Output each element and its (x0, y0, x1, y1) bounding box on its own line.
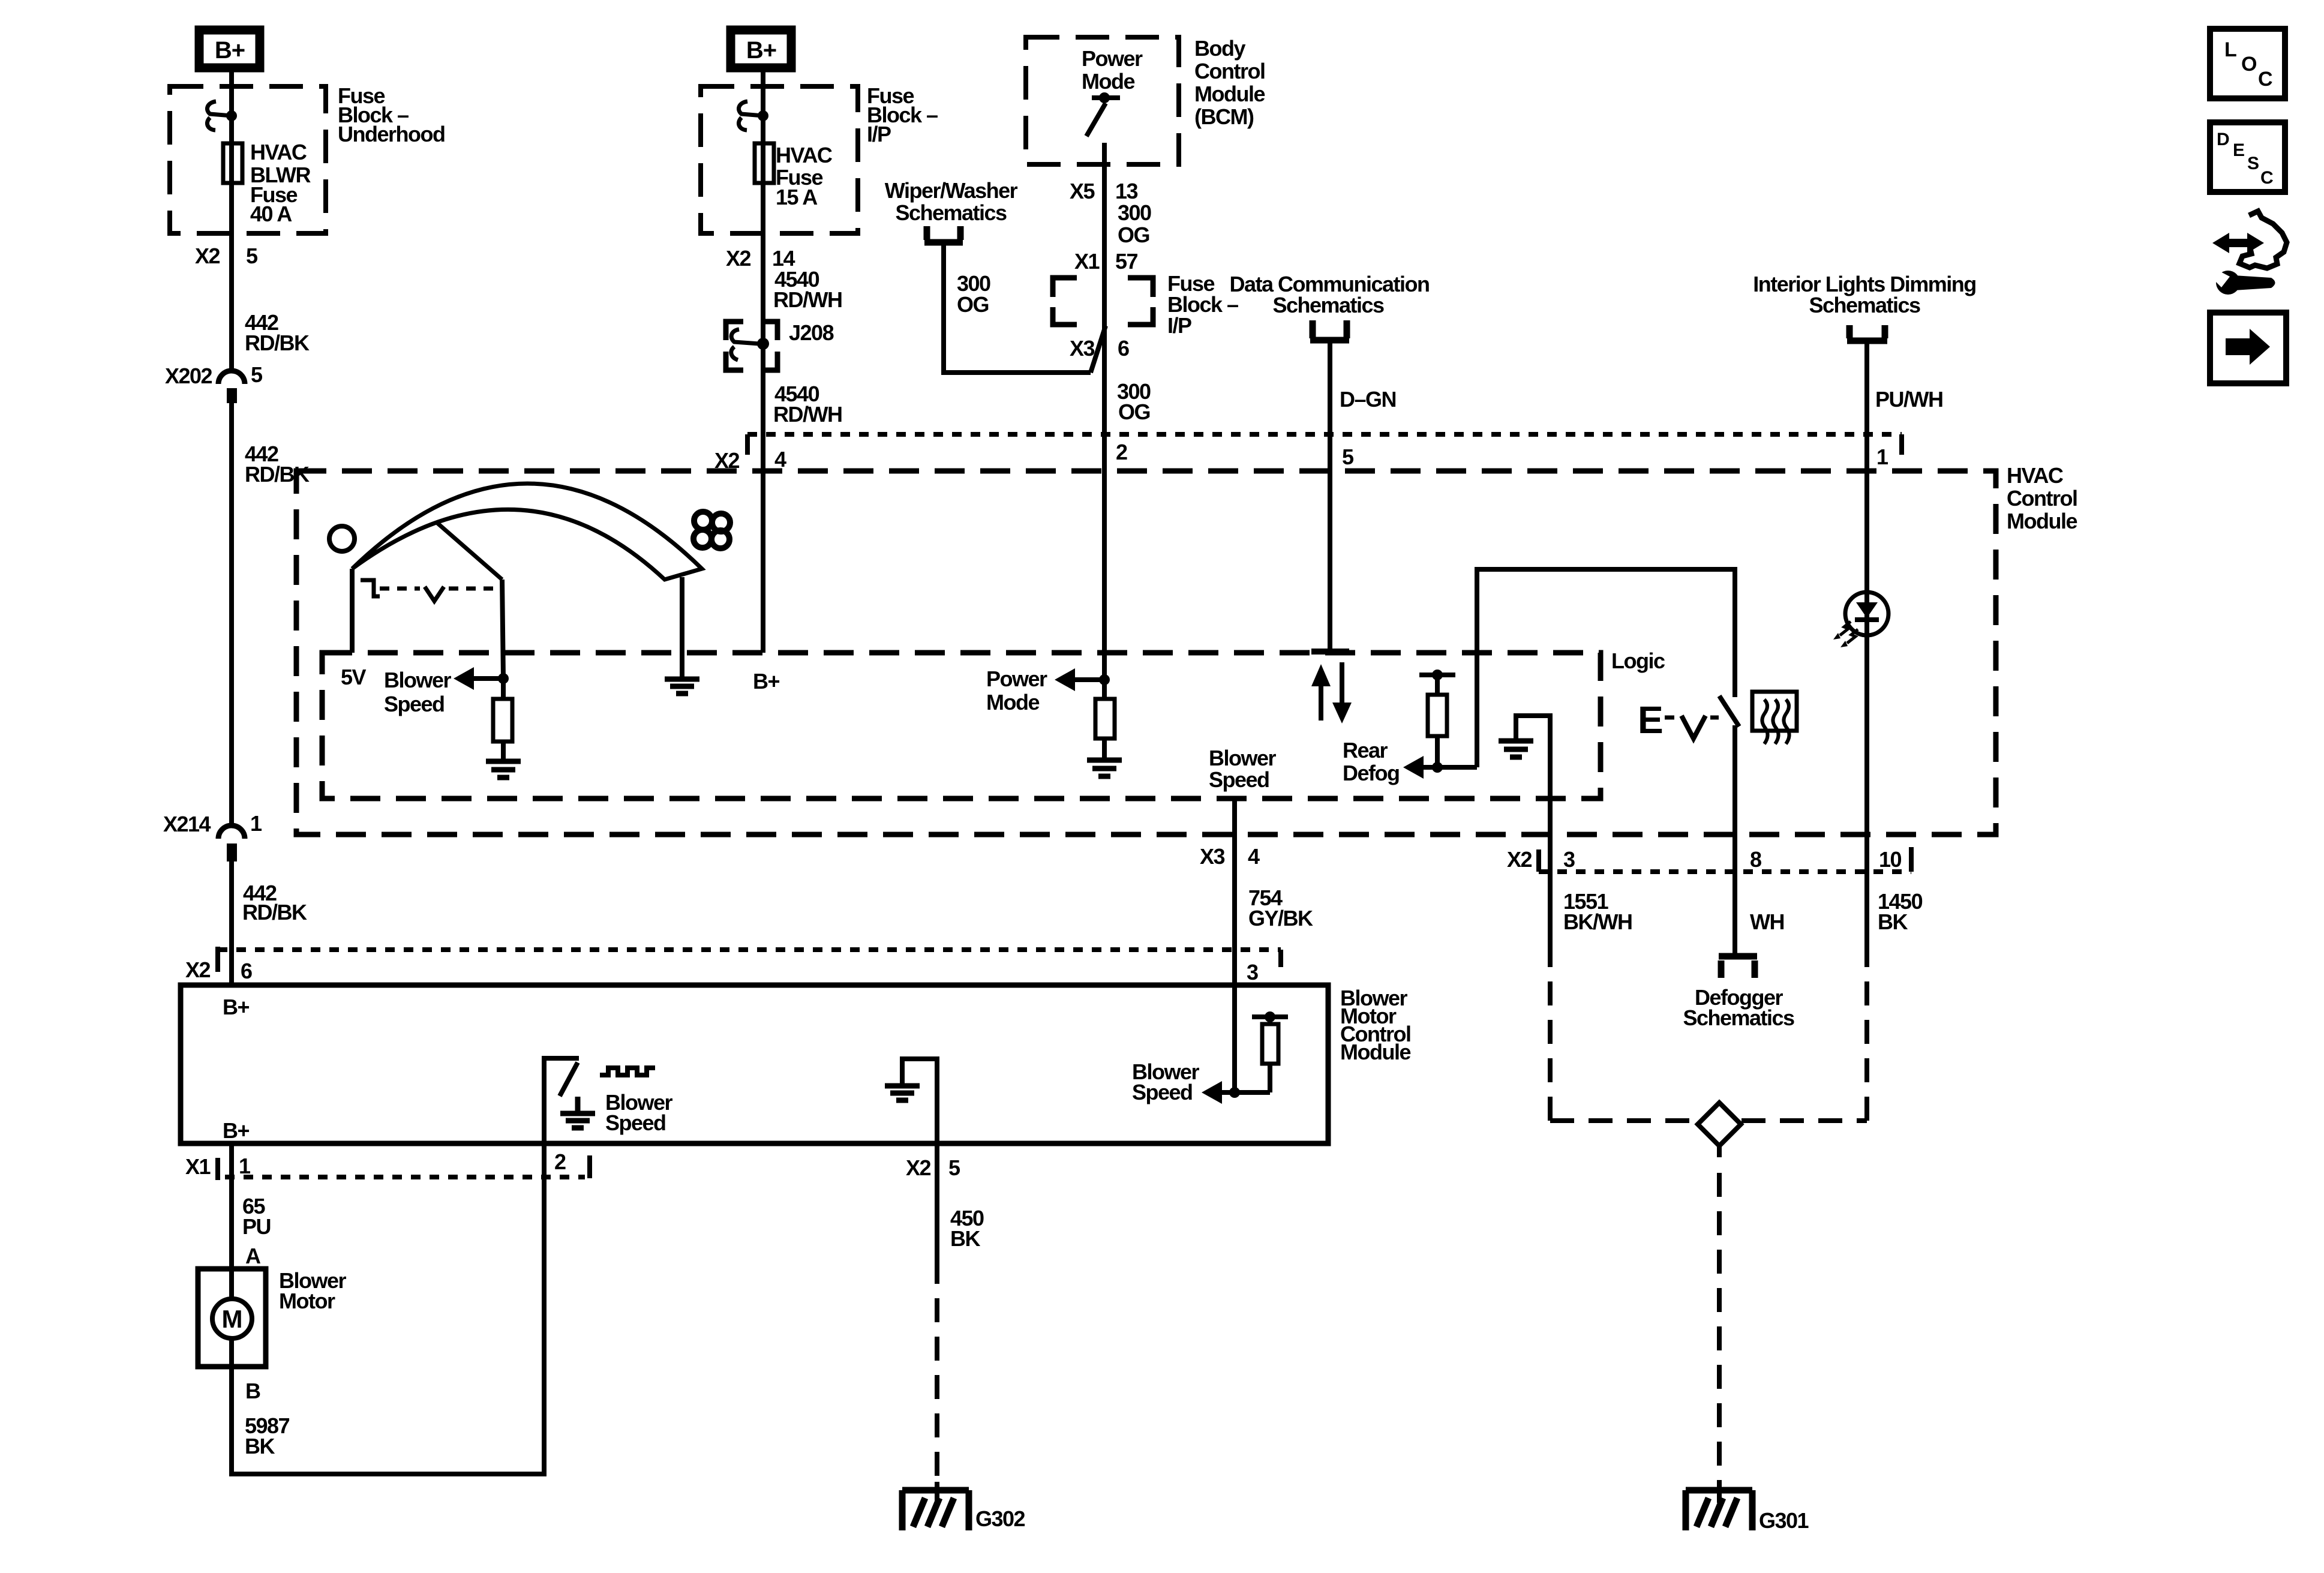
LOC reference box (2210, 29, 2285, 98)
wire 754 into module (1232, 985, 1237, 1092)
svg-text:Speed: Speed (1132, 1080, 1193, 1104)
svg-text:Control: Control (1194, 59, 1265, 83)
label HVAC BLWR Fuse 40 A (250, 140, 311, 226)
svg-text:Speed: Speed (605, 1110, 666, 1135)
fan icon (693, 512, 730, 548)
wire LED to pin 10 (1864, 634, 1869, 872)
svg-text:RD/WH: RD/WH (773, 287, 842, 312)
B+ power symbol (left) (199, 30, 260, 68)
svg-text:X2: X2 (185, 957, 211, 982)
svg-text:X1: X1 (185, 1154, 211, 1179)
svg-text:B: B (245, 1379, 260, 1403)
power mode switch pivot dot (1099, 92, 1110, 103)
svg-text:Speed: Speed (384, 692, 445, 716)
resistor (rear defog pull-up) (1435, 679, 1440, 695)
svg-text:X3: X3 (1200, 844, 1225, 869)
svg-text:Schematics: Schematics (1809, 293, 1920, 317)
svg-text:A: A (245, 1244, 261, 1268)
svg-text:G302: G302 (975, 1506, 1025, 1531)
label Fuse Block - Underhood (338, 83, 445, 146)
logic ground wire (1516, 716, 1550, 872)
label Blower Speed (HVAC input) (384, 668, 452, 716)
splice J208 fuse element (731, 329, 759, 360)
svg-text:Logic: Logic (1611, 649, 1665, 673)
splice diamond (1698, 1103, 1741, 1146)
off-page connector interior lights dimming (1847, 325, 1887, 341)
svg-text:Body: Body (1194, 36, 1245, 61)
DESC letters (2217, 130, 2274, 188)
fan motor wire to ground (680, 577, 684, 677)
adjuster mark (361, 580, 380, 596)
potentiometer needle (437, 523, 502, 580)
motor wire through box (229, 1269, 234, 1299)
diagnostic icon wrench (2211, 268, 2275, 295)
connector row dotted line X2 (HVAC module top) (747, 432, 1902, 437)
bracket right end of dotted row (1899, 434, 1904, 455)
label X214 / 1 (163, 811, 262, 836)
junction dot power mode (1099, 674, 1110, 685)
dashed harness right edge (1450) (1864, 981, 1869, 1121)
label Blower Speed (HVAC output) (1209, 746, 1277, 792)
off-page connector defogger (1719, 956, 1757, 978)
splice J208 bracket (726, 322, 777, 370)
svg-text:RD/BK: RD/BK (245, 462, 310, 487)
wire B+ to X202 (442 circuit) (229, 68, 234, 372)
data line end cap (1311, 649, 1349, 655)
connector X214 half-circle (218, 825, 245, 839)
svg-text:Underhood: Underhood (338, 122, 445, 146)
svg-text:Control: Control (2007, 486, 2077, 511)
svg-text:13: 13 (1115, 179, 1138, 203)
ground (fan motor) (665, 679, 699, 694)
dot rear defog supply (1432, 670, 1443, 680)
label Blower Speed (module input) (1132, 1059, 1200, 1104)
dashed adjust line 2 (449, 587, 502, 591)
connector X202 terminal (227, 388, 237, 403)
LED circle (1845, 592, 1888, 635)
connector X202 half-circle (218, 371, 245, 384)
svg-text:Wiper/Washer: Wiper/Washer (885, 178, 1018, 203)
svg-text:5V: 5V (341, 665, 367, 689)
svg-text:BK/WH: BK/WH (1563, 909, 1632, 934)
svg-text:HVAC: HVAC (776, 143, 833, 167)
svg-text:Rear: Rear (1343, 738, 1388, 763)
wiper signal wire (502, 580, 503, 679)
pin label X2 / 5 (module) (906, 1155, 960, 1180)
svg-text:RD/BK: RD/BK (242, 900, 307, 924)
G302 wire stub (935, 1482, 939, 1503)
svg-text:3: 3 (1563, 847, 1575, 872)
svg-text:1: 1 (1876, 445, 1888, 469)
svg-text:Schematics: Schematics (1683, 1005, 1794, 1030)
svg-text:RD/BK: RD/BK (245, 331, 310, 355)
connector row dotted line (HVAC bottom X2) (1539, 869, 1911, 874)
svg-text:X2: X2 (726, 246, 751, 271)
blower motor box (198, 1269, 266, 1367)
svg-text:57: 57 (1115, 249, 1138, 274)
power mode arrow (1055, 668, 1075, 691)
inner logic dashed box (322, 653, 1601, 798)
wire label 442 RD/BK (1) (245, 310, 310, 355)
svg-text:40 A: 40 A (250, 202, 292, 226)
svg-text:1: 1 (239, 1154, 251, 1178)
bracket X1 (215, 1158, 220, 1180)
junction dot module blower speed (1229, 1087, 1240, 1098)
supply bar rear defog (1419, 673, 1455, 677)
svg-text:J208: J208 (789, 320, 834, 345)
svg-text:GY/BK: GY/BK (1248, 906, 1313, 930)
ground G301 (1686, 1490, 1752, 1530)
ground (power mode) (1087, 760, 1122, 776)
svg-text:D: D (2217, 130, 2230, 149)
wire logic to defogger switch loop (1477, 569, 1735, 767)
dashed wire to G302 (935, 1260, 939, 1486)
label Wiper/Washer Schematics (885, 178, 1018, 225)
label Rear Defog (1343, 738, 1400, 785)
svg-text:8: 8 (1750, 847, 1761, 872)
wire X214 to blower motor control module (229, 861, 234, 985)
Fuse Block - I/P small dashed box (1053, 278, 1153, 325)
wire data communication to HVAC (D-GN) (1328, 343, 1332, 652)
ground (module X2-5) (885, 1086, 920, 1100)
svg-text:2: 2 (1116, 440, 1127, 464)
fuse HVAC BLWR 40A rectangle (223, 143, 242, 183)
svg-text:X214: X214 (163, 812, 211, 836)
wire label 1450 BK (1878, 889, 1923, 934)
wire B+ to HVAC control module (4540 circuit) (761, 68, 765, 471)
svg-text:O: O (2241, 53, 2257, 76)
svg-text:Blower: Blower (384, 668, 452, 692)
bracket left end of dotted row (745, 434, 750, 455)
ground (logic) (1499, 741, 1533, 757)
wire 1551 BK/WH (1548, 872, 1553, 967)
label Fuse Block - I/P (small) (1167, 271, 1238, 338)
label Blower Speed (module switch) (605, 1090, 673, 1135)
Fuse Block - Underhood dashed box (170, 86, 326, 233)
wire wiper/washer to junction (944, 245, 1091, 373)
wire module X2-5 to G302 (450 BK) (935, 1143, 939, 1260)
G301 wire stub (1717, 1482, 1722, 1503)
label Power Mode (BCM internal) (1082, 46, 1143, 94)
svg-text:C: C (2260, 168, 2274, 188)
svg-text:X3: X3 (1070, 336, 1095, 361)
label Power Mode (HVAC input) (986, 667, 1047, 715)
blower speed switch (module) (544, 1058, 579, 1143)
svg-text:G301: G301 (1759, 1508, 1809, 1533)
diagonal join to 300 OG wire (1091, 326, 1106, 373)
pin label X2 / 5 (195, 244, 258, 268)
resistor (power mode) (1095, 699, 1115, 739)
label HVAC Control Module (2007, 463, 2077, 533)
pin label X1 / 1 (185, 1154, 251, 1179)
svg-text:Speed: Speed (1209, 767, 1269, 792)
connector row dotted line (blower module top) (218, 947, 1281, 952)
diagnostic icon arrow (2212, 233, 2264, 253)
svg-text:B+: B+ (746, 37, 776, 64)
junction dot at fuse element (226, 110, 237, 121)
svg-text:4: 4 (774, 447, 786, 472)
svg-text:Mode: Mode (1082, 69, 1134, 94)
connector row dotted line (X1) (225, 1175, 585, 1179)
wire label 300 OG (2) (1117, 379, 1151, 424)
svg-text:(BCM): (BCM) (1194, 104, 1254, 129)
svg-text:300: 300 (1118, 200, 1151, 225)
label Data Communication Schematics (1229, 272, 1429, 317)
Blower Motor Control Module box (181, 985, 1328, 1143)
wire switch to pin 8 (1733, 725, 1737, 953)
rear defog arrow (1403, 756, 1424, 779)
bracket right end (pin 3) (1278, 950, 1283, 967)
label HVAC Fuse 15 A (776, 143, 833, 209)
svg-text:Power: Power (986, 667, 1047, 691)
svg-text:WH: WH (1750, 909, 1784, 934)
blower speed dial crescent (352, 484, 702, 580)
wire motor B return to module pin 2 (232, 1143, 544, 1474)
fuse pull element HVAC Fuse (738, 101, 763, 130)
ground (module switch) (560, 1097, 595, 1128)
svg-text:Module: Module (1194, 82, 1265, 106)
dashed adjust line (380, 587, 420, 591)
resistor (blower speed pull-down) (501, 679, 506, 699)
wire 1450 BK (1864, 872, 1869, 967)
PWM waveform icon (600, 1068, 655, 1075)
defogger grid icon (1752, 692, 1797, 731)
svg-text:L: L (2224, 38, 2237, 61)
pin label X2 / 14 (726, 246, 795, 271)
svg-text:X2: X2 (195, 244, 220, 268)
svg-text:B+: B+ (753, 669, 779, 694)
wire power mode into module (1102, 471, 1107, 699)
V mark (425, 587, 444, 601)
svg-text:15 A: 15 A (776, 185, 818, 209)
svg-text:D–GN: D–GN (1340, 387, 1396, 412)
svg-text:Defog: Defog (1343, 761, 1400, 785)
label Interior Lights Dimming Schematics (1753, 272, 1976, 317)
wire module pin 1 to motor (229, 1143, 234, 1269)
wire label 442 RD/BK (2) (245, 442, 310, 487)
label X202 / 5 (165, 362, 263, 388)
svg-text:PU: PU (242, 1214, 271, 1239)
diagnostic icon outline (2239, 211, 2287, 268)
E-v dashed link (1665, 716, 1680, 720)
svg-text:Blower: Blower (1209, 746, 1277, 770)
svg-text:PU/WH: PU/WH (1875, 387, 1943, 412)
svg-text:4: 4 (1248, 844, 1260, 869)
svg-text:BK: BK (245, 1434, 275, 1458)
wire label 300 OG (1) (1118, 200, 1151, 247)
svg-text:BK: BK (1878, 909, 1908, 934)
blower motor circle (212, 1299, 252, 1338)
LOC letters (2224, 38, 2273, 91)
svg-text:Power: Power (1082, 46, 1143, 71)
svg-text:HVAC: HVAC (2007, 463, 2064, 488)
svg-text:1: 1 (250, 811, 262, 836)
svg-text:Mode: Mode (986, 690, 1039, 715)
svg-text:OG: OG (1118, 400, 1150, 424)
dashed harness bottom right (1742, 1118, 1867, 1123)
svg-text:E: E (1638, 698, 1664, 742)
module ground wire (X2-5) (902, 1059, 937, 1143)
dashed harness left edge (1551) (1548, 981, 1553, 1121)
svg-text:E: E (2233, 140, 2245, 160)
wire label 4540 RD/WH (1) (773, 267, 842, 312)
Fuse Block - I/P dashed box (701, 86, 858, 233)
svg-text:Schematics: Schematics (895, 200, 1007, 225)
wire interior lights to LED (PU/WH) (1864, 343, 1869, 594)
LED diode triangle (1856, 602, 1878, 618)
wire label 442 RD/BK (3) (242, 881, 307, 924)
down arrow (serial data) (1340, 662, 1344, 703)
fuse HVAC 15A rectangle (755, 143, 774, 183)
fuse pull element HVAC BLWR (207, 101, 232, 130)
svg-text:X202: X202 (165, 364, 212, 388)
svg-text:5: 5 (246, 244, 258, 268)
off-page connector data communication (1310, 320, 1349, 340)
defogger switch blade (1719, 696, 1739, 727)
blower knob circle (329, 526, 355, 551)
v mark (1682, 716, 1706, 739)
up arrow (serial data) (1319, 685, 1323, 721)
arrow reference box (2210, 313, 2286, 383)
module blower speed arrow (1202, 1081, 1222, 1104)
svg-text:5: 5 (251, 362, 263, 387)
wire label 65 PU (242, 1194, 271, 1239)
resistor (module blower speed) (1268, 1017, 1272, 1024)
HVAC Control Module dashed box (296, 471, 1996, 834)
wire label 300 OG (wiper) (957, 271, 990, 317)
junction dot at fuse element (I/P) (758, 110, 768, 121)
svg-text:I/P: I/P (867, 122, 891, 146)
wire WH to defogger connector (1733, 872, 1737, 953)
wire label 4540 RD/WH (2) (773, 382, 842, 427)
power mode switch contact bar (1092, 95, 1120, 100)
svg-text:2: 2 (554, 1149, 566, 1174)
bracket right end (pin 10) (1909, 847, 1914, 872)
svg-text:S: S (2247, 154, 2259, 173)
blower speed arrow (454, 667, 474, 690)
wire blower speed output 754 (1232, 798, 1237, 985)
svg-text:BK: BK (950, 1226, 980, 1251)
power mode switch blade (1086, 103, 1106, 136)
svg-text:Module: Module (1340, 1040, 1410, 1064)
svg-text:I/P: I/P (1167, 313, 1191, 338)
DESC reference box (2210, 122, 2285, 192)
svg-text:5: 5 (1342, 445, 1354, 469)
pin label X2 / 4 (714, 447, 786, 473)
svg-text:C: C (2258, 68, 2273, 91)
svg-text:RD/WH: RD/WH (773, 402, 842, 427)
arrow glyph (2226, 329, 2270, 365)
svg-text:B+: B+ (223, 1118, 249, 1143)
wire B+ into HVAC (761, 471, 765, 653)
svg-text:10: 10 (1879, 847, 1902, 872)
pin label X5 / 13 (1070, 179, 1138, 203)
junction dot rear defog (1432, 762, 1443, 773)
svg-text:5: 5 (948, 1155, 960, 1180)
junction dot J208 (757, 338, 769, 350)
pin label X1 / 57 (1074, 249, 1138, 274)
label Fuse Block - I/P (867, 83, 938, 146)
5V feed wire from dial (350, 569, 355, 653)
label Blower Motor Control Module (1340, 986, 1410, 1064)
wire label 1551 BK/WH (1563, 889, 1632, 934)
svg-text:B+: B+ (215, 37, 245, 64)
wire BCM to HVAC (300 circuit) (1102, 143, 1107, 471)
svg-text:X1: X1 (1074, 249, 1100, 274)
connector X214 terminal (227, 843, 237, 861)
dot supply bar (1265, 1011, 1275, 1022)
B+ power symbol (second) (731, 30, 791, 68)
svg-text:Module: Module (2007, 509, 2077, 533)
Body Control Module dashed box (1026, 37, 1179, 164)
wire X202 to X214 (229, 403, 234, 828)
svg-text:OG: OG (1118, 223, 1149, 247)
bracket right end (pin 2) (587, 1155, 592, 1178)
ground G302 (902, 1490, 969, 1530)
label Body Control Module (BCM) (1194, 36, 1265, 129)
wire label 450 BK (950, 1206, 984, 1251)
svg-text:M: M (222, 1305, 243, 1333)
wire label 5987 BK (245, 1413, 290, 1458)
junction dot blower speed (498, 673, 509, 684)
dashed harness bottom left (1550, 1118, 1698, 1123)
LED light arrows (1833, 622, 1858, 647)
dashed wire diamond to G301 (1717, 1146, 1722, 1157)
svg-text:Schematics: Schematics (1272, 293, 1384, 317)
svg-text:X2: X2 (906, 1155, 931, 1180)
label Blower Motor (279, 1268, 347, 1313)
svg-text:6: 6 (241, 959, 252, 983)
supply bar blower speed (module) (1252, 1014, 1288, 1019)
LED wire through (1864, 594, 1869, 634)
ground (blower speed) (486, 761, 521, 778)
wire label 754 GY/BK (1248, 885, 1313, 930)
v-switch dashed link (1710, 716, 1723, 720)
pin label X2 / 3 (1507, 847, 1575, 872)
switch blade (module) (560, 1062, 578, 1096)
off-page connector wiper/washer (924, 226, 963, 242)
svg-text:HVAC: HVAC (250, 140, 307, 164)
LED cathode bar (1855, 617, 1879, 622)
svg-text:Motor: Motor (279, 1289, 335, 1313)
svg-text:6: 6 (1118, 336, 1129, 361)
label Defogger Schematics (1683, 985, 1794, 1030)
svg-text:B+: B+ (223, 995, 249, 1019)
svg-text:X5: X5 (1070, 179, 1095, 203)
bracket left end (X2/3) (1536, 849, 1541, 872)
pin label X3 / 6 (1070, 336, 1129, 361)
bracket left end (X2/6) (215, 947, 220, 972)
svg-text:3: 3 (1247, 960, 1258, 984)
svg-text:X2: X2 (1507, 847, 1532, 872)
pin label X2 / 6 (185, 957, 252, 983)
svg-text:OG: OG (957, 292, 989, 317)
pin label X3 / 4 (blower speed out) (1200, 844, 1260, 869)
